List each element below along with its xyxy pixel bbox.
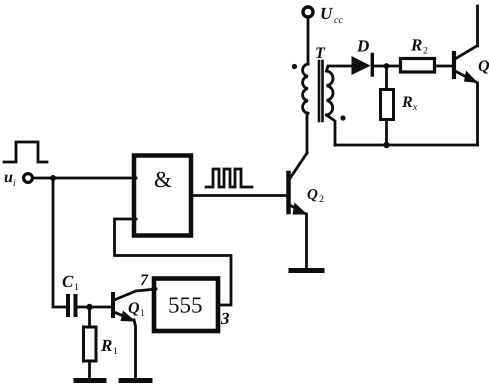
node diode/R2/Rx junction	[384, 63, 390, 69]
wire R2 to Q base	[435, 65, 453, 68]
label R2	[410, 36, 428, 57]
input pulse waveform symbol	[4, 142, 47, 162]
ground R1	[76, 378, 104, 383]
label C1	[62, 272, 79, 293]
transformer T core	[319, 61, 323, 121]
svg-text:i: i	[13, 178, 16, 189]
wire Q collector up	[476, 6, 479, 46]
svg-text:7: 7	[140, 272, 149, 289]
wire secondary top to diode	[327, 66, 352, 71]
svg-text:D: D	[356, 37, 369, 56]
label Rx	[401, 94, 418, 113]
wire input junction down to C1	[53, 178, 66, 307]
svg-text:C: C	[62, 272, 74, 291]
wire Q1 emitter to ground	[134, 320, 136, 378]
svg-text:cc: cc	[334, 15, 343, 26]
wire bottom rail of secondary loop	[335, 144, 478, 147]
resistor R2	[401, 59, 435, 73]
transistor Q	[454, 46, 478, 84]
svg-text:555: 555	[168, 293, 203, 318]
wire input to AND gate input1	[33, 177, 136, 180]
555 timer U1	[154, 279, 218, 332]
svg-text:&: &	[154, 167, 172, 192]
svg-text:R: R	[410, 36, 422, 55]
ground Q2	[291, 268, 322, 273]
svg-text:2: 2	[423, 46, 428, 57]
transformer T secondary winding	[327, 71, 334, 115]
resistor R1	[84, 327, 97, 361]
wire Ucc to transformer primary	[307, 18, 310, 65]
svg-text:1: 1	[74, 282, 79, 293]
svg-text:Q: Q	[478, 58, 489, 75]
label R1	[100, 336, 118, 357]
node ui input label	[4, 169, 16, 189]
svg-text:Q: Q	[128, 300, 140, 317]
svg-text:R: R	[100, 336, 112, 355]
node Rx/rail junction	[383, 142, 389, 148]
wire secondary bottom to rail	[327, 115, 336, 145]
label Q1	[128, 300, 145, 319]
junction input node	[50, 175, 56, 181]
svg-text:3: 3	[220, 309, 230, 328]
wire junction down to R1	[88, 307, 91, 327]
resistor Rx	[381, 90, 394, 120]
wire Q2 emitter to ground	[305, 214, 308, 268]
capacitor C1	[68, 296, 76, 315]
wire C1 to Q1 base	[78, 306, 112, 309]
svg-text:2: 2	[319, 194, 324, 205]
transistor Q2	[289, 153, 308, 215]
wire junction down to Rx	[385, 66, 388, 90]
wire diode to R2	[373, 65, 401, 68]
svg-text:R: R	[401, 94, 413, 111]
svg-text:x: x	[412, 102, 418, 113]
svg-text:u: u	[4, 169, 13, 186]
svg-text:U: U	[320, 4, 333, 23]
svg-text:T: T	[315, 45, 326, 62]
wire AND output to Q2 base	[191, 194, 287, 197]
wire 555 pin3 feedback to AND input2	[115, 219, 232, 305]
terminal Ucc	[303, 7, 313, 17]
AND gate U2	[134, 156, 191, 236]
svg-text:1: 1	[113, 346, 118, 357]
label Q2	[307, 187, 324, 205]
wire Q emitter down	[476, 83, 479, 145]
svg-text:1: 1	[140, 308, 145, 319]
wire Q2 collector to transformer primary	[306, 113, 309, 153]
pulse train waveform symbol	[206, 169, 252, 187]
input terminal ui	[24, 174, 33, 183]
wire Rx to bottom rail	[385, 120, 388, 146]
node C1/R1/Q1 junction	[86, 304, 92, 310]
diode D	[352, 55, 373, 76]
transformer T primary winding	[303, 64, 308, 113]
svg-text:Q: Q	[307, 187, 318, 203]
polarity dot secondary	[340, 115, 345, 120]
polarity dot primary	[292, 64, 297, 69]
transistor Q1	[113, 289, 156, 322]
label Ucc	[320, 4, 343, 26]
ground Q1	[121, 378, 150, 383]
wire R1 to ground	[88, 361, 91, 378]
